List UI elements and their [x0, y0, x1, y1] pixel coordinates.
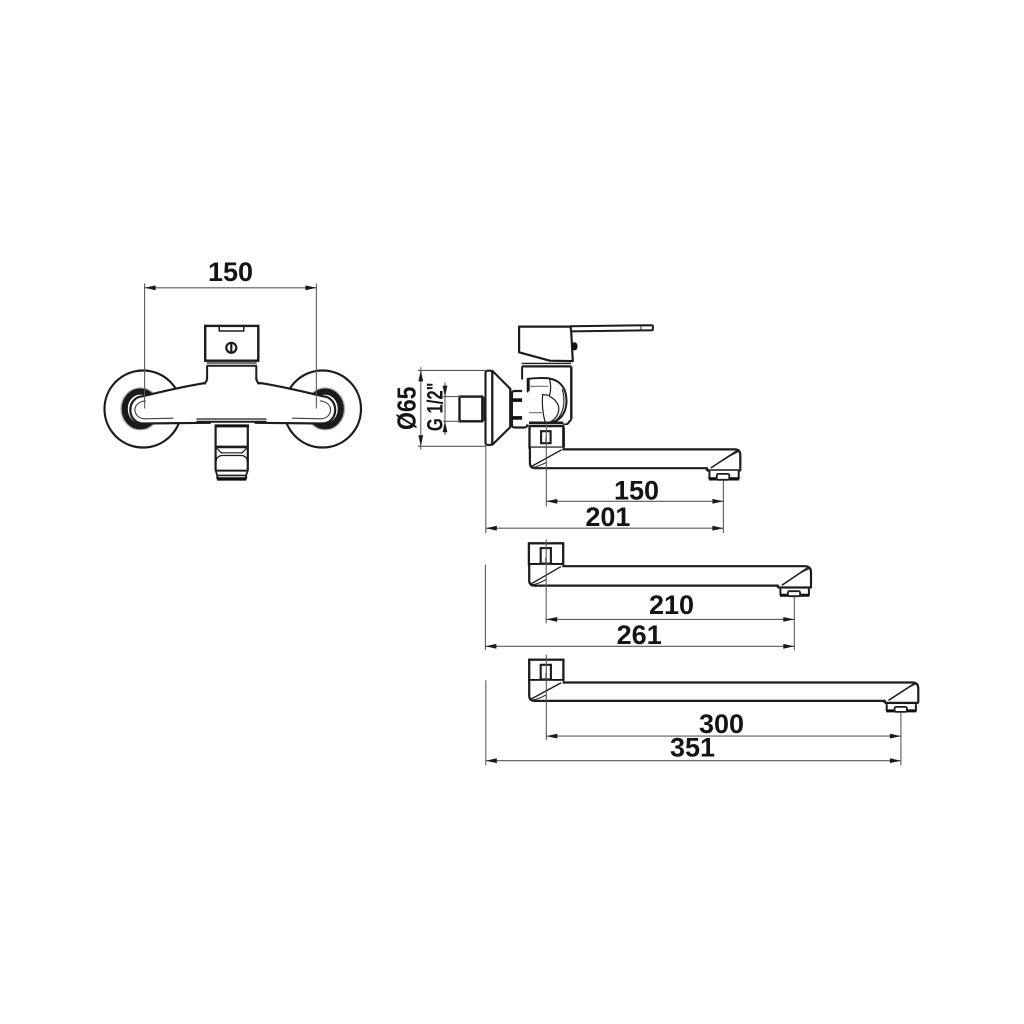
svg-text:150: 150	[614, 475, 659, 505]
svg-text:150: 150	[208, 257, 253, 287]
svg-text:G 1/2": G 1/2"	[423, 383, 448, 432]
svg-text:210: 210	[649, 590, 694, 620]
svg-text:351: 351	[670, 733, 715, 763]
svg-text:201: 201	[585, 502, 630, 532]
svg-text:261: 261	[617, 620, 662, 650]
svg-text:Ø65: Ø65	[391, 387, 421, 431]
